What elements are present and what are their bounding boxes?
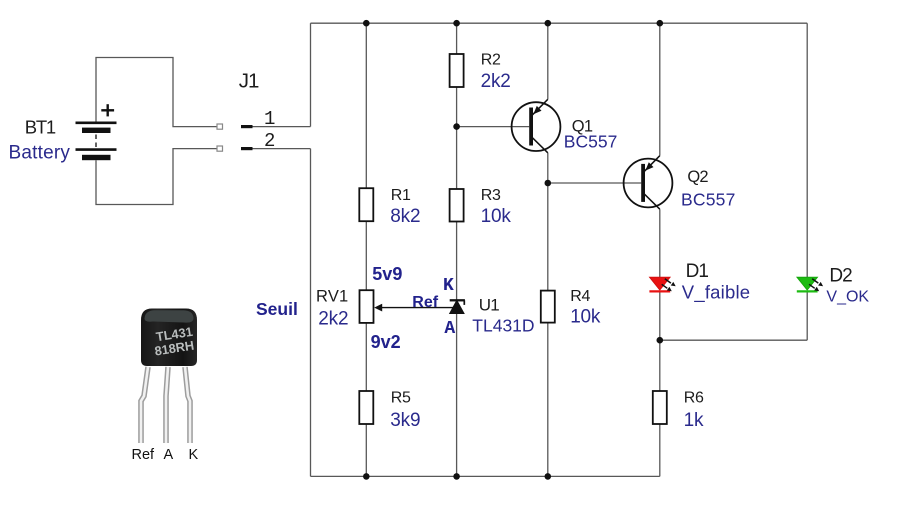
svg-text:BT1: BT1 <box>25 117 56 138</box>
transistor Q1 BC557 <box>512 99 561 153</box>
wire Q2 emitter to top rail <box>659 23 661 156</box>
svg-text:RV1: RV1 <box>316 288 348 306</box>
svg-text:R4: R4 <box>570 288 590 305</box>
svg-text:Seuil: Seuil <box>256 299 298 319</box>
wire D1 cathode to node <box>659 291 661 391</box>
node bottom rail at R5 <box>363 473 370 480</box>
wire RV1 to R5 <box>365 323 367 391</box>
svg-text:V_OK: V_OK <box>826 289 869 306</box>
node top rail at R1 <box>363 20 370 27</box>
svg-text:R1: R1 <box>391 187 411 204</box>
svg-text:D2: D2 <box>829 265 852 286</box>
node D1 cathode D2 <box>657 337 664 344</box>
svg-text:R3: R3 <box>481 187 501 204</box>
node top rail at Q1 <box>545 20 552 27</box>
wire top rail V+ <box>311 22 808 24</box>
svg-text:V_faible: V_faible <box>682 282 750 304</box>
connector J1 pin2 <box>241 147 253 150</box>
svg-text:1k: 1k <box>684 410 704 431</box>
wire node to R3 <box>456 127 458 189</box>
svg-text:2k2: 2k2 <box>318 309 348 330</box>
wire battery loop top <box>96 58 217 127</box>
svg-text:A: A <box>164 447 174 463</box>
wire R6 to bottom rail <box>659 424 661 476</box>
svg-text:U1: U1 <box>479 296 499 315</box>
photo TL431 TO-92 package <box>141 309 197 444</box>
svg-text:2: 2 <box>264 130 275 152</box>
connector J1 pin1 <box>241 125 253 128</box>
resistor R4 <box>541 291 555 323</box>
wire bottom rail GND <box>311 475 660 477</box>
node bottom rail at R4 <box>545 473 552 480</box>
svg-text:D1: D1 <box>686 261 709 282</box>
wire top rail to D2 anode <box>806 23 808 277</box>
potentiometer RV1 <box>360 290 374 323</box>
LED D1 red <box>649 277 675 291</box>
wire node to Q2 base <box>548 182 641 184</box>
svg-text:3k9: 3k9 <box>390 410 420 431</box>
wire battery loop bottom <box>96 149 217 205</box>
svg-text:1: 1 <box>264 108 275 130</box>
svg-text:R2: R2 <box>481 51 501 68</box>
wire D2 to D1 node <box>660 339 807 341</box>
wire J1 pin1 to top rail vertical <box>310 23 312 126</box>
transistor Q2 BC557 <box>624 156 673 210</box>
svg-text:A: A <box>444 319 455 339</box>
battery BT1 <box>76 123 117 160</box>
wire R3 to U1 cathode <box>456 222 458 300</box>
svg-text:R5: R5 <box>391 389 411 406</box>
battery plus sign <box>101 104 114 116</box>
svg-text:BC557: BC557 <box>681 190 736 210</box>
svg-text:Q2: Q2 <box>687 168 708 186</box>
wire D2 cathode down <box>806 291 808 340</box>
resistor R3 <box>450 189 464 222</box>
wire R5 to bottom rail <box>365 424 367 476</box>
resistor R6 <box>653 391 667 424</box>
wire node to R4 <box>547 183 549 291</box>
node top rail at R2 <box>453 20 460 27</box>
shunt reference U1 TL431 <box>450 300 465 313</box>
wire Q1 collector down to node <box>547 153 549 183</box>
resistor R5 <box>359 391 373 424</box>
wire J1 pin2 down to bottom rail <box>310 149 312 477</box>
svg-text:2k2: 2k2 <box>481 71 511 92</box>
wire top rail to R2 <box>456 23 458 54</box>
svg-text:Ref: Ref <box>132 447 156 463</box>
svg-text:5v9: 5v9 <box>372 264 402 284</box>
node bottom rail at U1 <box>453 473 460 480</box>
potentiometer RV1 wiper arrow <box>374 304 453 312</box>
svg-text:10k: 10k <box>481 206 512 227</box>
wire U1 anode to bottom rail <box>456 314 458 477</box>
node R2 R3 Q1 base <box>453 123 460 130</box>
wire Q1 emitter to top rail <box>547 23 549 99</box>
connector J1 pin1 square <box>217 124 223 129</box>
wire node to Q1 base <box>457 126 530 128</box>
svg-text:BC557: BC557 <box>564 132 618 152</box>
svg-text:K: K <box>189 447 199 463</box>
svg-text:R6: R6 <box>684 389 704 406</box>
wire R1 column <box>365 23 367 188</box>
svg-text:10k: 10k <box>570 307 601 328</box>
resistor R1 <box>359 188 373 221</box>
wire J1 pin2 to vertical <box>253 148 311 150</box>
node top rail at Q2 <box>657 20 664 27</box>
node Q1 collector Q2 base R4 <box>545 180 552 187</box>
svg-text:K: K <box>443 276 454 296</box>
wire Q2 collector to D1 anode <box>659 209 661 277</box>
LED D2 green <box>797 277 823 291</box>
wire R1 to RV1 <box>365 221 367 290</box>
svg-text:9v2: 9v2 <box>371 332 401 352</box>
resistor R2 <box>450 54 464 87</box>
connector J1 pin2 square <box>217 146 223 151</box>
wire J1 pin1 to vertical <box>253 126 311 128</box>
svg-text:Ref: Ref <box>412 294 438 311</box>
svg-text:8k2: 8k2 <box>390 206 420 227</box>
svg-text:J1: J1 <box>239 69 259 92</box>
wire R4 to bottom rail <box>547 323 549 477</box>
svg-text:TL431D: TL431D <box>472 316 534 336</box>
wire R2 to node base Q1 <box>456 87 458 127</box>
svg-text:Battery: Battery <box>9 143 71 164</box>
